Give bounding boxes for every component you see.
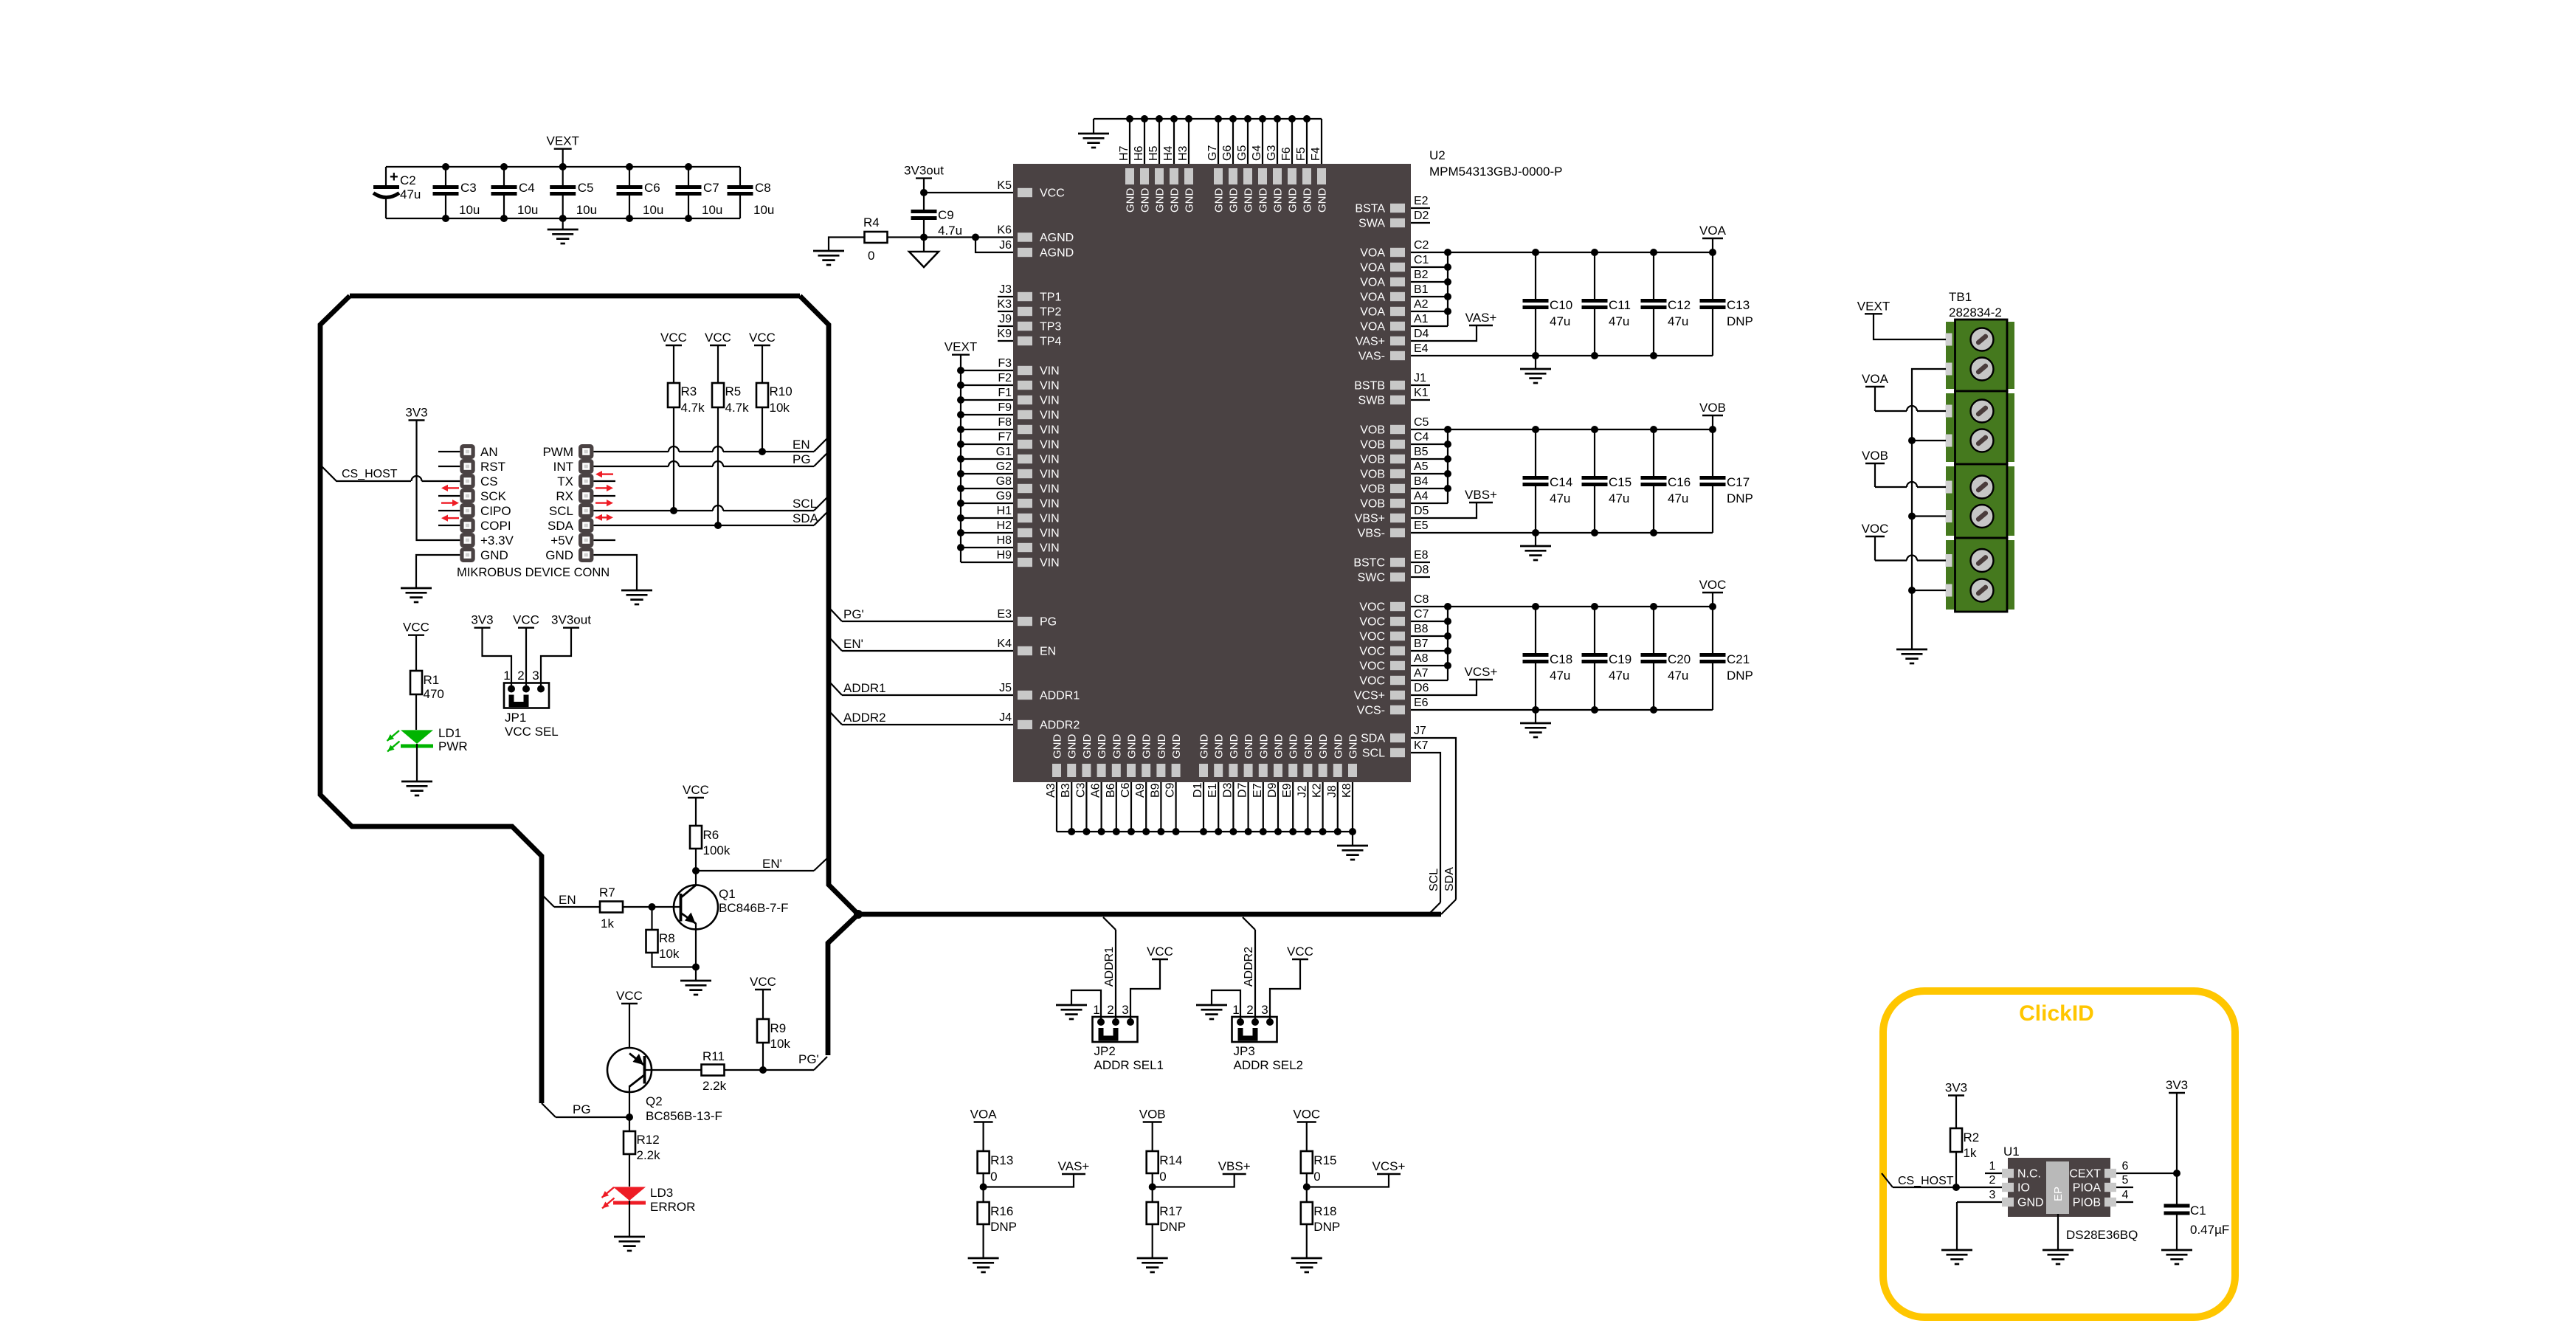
svg-text:R18: R18 (1313, 1204, 1336, 1218)
svg-text:GND: GND (1141, 734, 1153, 759)
svg-text:VCC: VCC (1147, 945, 1173, 959)
svg-text:GND: GND (1316, 188, 1329, 213)
svg-text:C6: C6 (644, 181, 660, 195)
U2 pin A7 VOC (1359, 667, 1448, 688)
label U1 (2003, 1145, 2020, 1159)
resistor R1 (410, 635, 444, 730)
svg-text:VCC: VCC (1287, 945, 1313, 959)
svg-text:CS_HOST: CS_HOST (342, 468, 398, 480)
net label VOA (bank) (1699, 224, 1727, 252)
U2 pin K2 GND (bottom) (1311, 734, 1330, 836)
capacitor C6 (617, 163, 664, 222)
U2 pin F3 VIN (957, 357, 1060, 378)
label VCC SEL (505, 725, 559, 739)
net label VOC (TB1) (1862, 522, 1889, 536)
resistor R14 (1147, 1122, 1183, 1187)
svg-text:CEXT: CEXT (2069, 1168, 2101, 1181)
svg-text:GND: GND (1287, 188, 1299, 213)
wire VCC to JP3 pin 3 (1270, 959, 1300, 1022)
U2 pin K8 GND (bottom) (1341, 734, 1360, 836)
svg-text:VIN: VIN (1040, 557, 1060, 570)
svg-text:C3: C3 (460, 181, 477, 195)
svg-text:+: + (390, 169, 398, 185)
svg-text:VEXT: VEXT (945, 340, 977, 354)
svg-text:1k: 1k (1964, 1146, 1977, 1160)
U2 pin C9 GND (bottom) (1164, 734, 1184, 836)
label TB1 (1949, 290, 1972, 304)
resistor R16 (978, 1187, 1017, 1259)
wire R4 to ground (829, 238, 865, 252)
svg-text:VIN: VIN (1040, 483, 1060, 496)
svg-text:47u: 47u (1668, 669, 1688, 683)
svg-text:G7: G7 (1206, 145, 1219, 161)
label ADDR SEL1 (1094, 1058, 1164, 1072)
svg-text:IO: IO (2017, 1182, 2030, 1195)
junction EN' node (692, 867, 700, 874)
ground (VOB bank) (1520, 533, 1551, 560)
svg-text:D5: D5 (1414, 505, 1429, 517)
wire Q2 base to R11 (644, 1069, 702, 1071)
U2 pin H4 GND (top) (1162, 115, 1181, 213)
svg-text:VOB: VOB (1360, 469, 1385, 481)
svg-text:G4: G4 (1251, 145, 1263, 161)
wire COPI stub (438, 525, 460, 526)
svg-text:C8: C8 (1414, 593, 1429, 606)
svg-text:A5: A5 (1414, 460, 1429, 473)
wire AN stub (438, 451, 460, 452)
U2 pin C6 GND (bottom) (1119, 734, 1139, 836)
svg-text:H3: H3 (1177, 145, 1189, 161)
wire VCC to Q2 emitter (629, 1004, 630, 1048)
wire top rail of input cap bank (386, 166, 740, 168)
svg-text:F3: F3 (998, 357, 1012, 370)
label PG' (798, 1052, 819, 1066)
svg-text:GND: GND (1213, 188, 1226, 213)
U2 pin J2 GND (bottom) (1296, 734, 1315, 836)
ground (Q1 emitter) (680, 967, 711, 995)
U2 pin H6 GND (top) (1133, 115, 1152, 213)
resistor R5 (712, 345, 749, 525)
junction VCS+ node (1303, 1184, 1311, 1191)
svg-text:BSTA: BSTA (1355, 203, 1385, 215)
svg-text:H1: H1 (997, 505, 1012, 517)
svg-text:F5: F5 (1295, 147, 1308, 161)
U2 pin F4 GND (top) (1310, 119, 1329, 213)
ground (right header) (621, 590, 652, 604)
svg-text:K1: K1 (1414, 387, 1429, 399)
svg-text:R9: R9 (770, 1021, 787, 1035)
U2 pin H3 GND (top) (1177, 115, 1196, 213)
svg-text:F2: F2 (998, 372, 1012, 384)
svg-text:PG: PG (793, 452, 811, 466)
svg-text:ADDR2: ADDR2 (1243, 947, 1255, 987)
svg-text:DS28E36BQ: DS28E36BQ (2066, 1228, 2138, 1242)
svg-text:PIOB: PIOB (2073, 1197, 2101, 1209)
svg-text:C5: C5 (578, 181, 594, 195)
red arrow (TX out) (595, 485, 613, 491)
wire R7 to Q1 base (623, 903, 681, 911)
resistor R10 (756, 345, 793, 452)
transistor Q1 BC846B-7-F (674, 871, 788, 967)
resistor R12 (624, 1117, 660, 1187)
svg-text:SCL: SCL (549, 504, 573, 518)
svg-text:VCC SEL: VCC SEL (505, 725, 559, 739)
svg-text:0: 0 (1159, 1170, 1166, 1184)
label SDA (793, 511, 819, 525)
U2 pin H8 VIN (957, 534, 1060, 555)
wire R4 to AGND pins (888, 234, 1014, 241)
svg-text:VOC: VOC (1699, 578, 1727, 592)
svg-text:E5: E5 (1414, 519, 1429, 532)
svg-text:VOA: VOA (970, 1108, 998, 1122)
svg-text:K7: K7 (1414, 739, 1429, 752)
svg-text:GND: GND (545, 548, 573, 562)
wire 3V3/CEXT node (2173, 1093, 2180, 1204)
wire U1 EP to ground (2057, 1214, 2059, 1250)
U1 pin 1 N.C. (1985, 1160, 2041, 1181)
svg-text:47u: 47u (1668, 491, 1688, 505)
capacitor C19 (1582, 603, 1632, 714)
svg-text:E3: E3 (997, 608, 1012, 621)
svg-text:Q1: Q1 (719, 887, 736, 901)
svg-text:A3: A3 (1045, 783, 1057, 798)
resistor R4 (863, 215, 888, 263)
svg-text:C11: C11 (1609, 298, 1631, 312)
svg-text:SCL: SCL (1428, 869, 1440, 891)
wire CS_HOST (ClickID) (1882, 1173, 2002, 1191)
red arrow (CS in) (441, 485, 459, 491)
U2 pin B1 VOA (1360, 283, 1448, 304)
wire SCL row to bus (593, 497, 827, 514)
svg-text:DNP: DNP (1159, 1220, 1186, 1234)
wire JP2 pin 1 to ground (1071, 990, 1101, 1022)
capacitor C7 (676, 163, 723, 222)
ground (U1 EP) (2043, 1250, 2073, 1264)
U2 pin H2 VIN (957, 519, 1060, 540)
svg-text:R7: R7 (599, 885, 615, 900)
svg-text:EN: EN (559, 893, 576, 907)
svg-text:VCC: VCC (660, 331, 687, 345)
svg-text:D4: D4 (1414, 328, 1429, 340)
ground (R18) (1291, 1258, 1322, 1272)
svg-text:GND: GND (1170, 734, 1183, 759)
U1 EP pad (2046, 1161, 2069, 1214)
ground (VOA bank) (1520, 356, 1551, 383)
junction Q1 emitter node (692, 964, 700, 971)
svg-text:GND: GND (1066, 734, 1079, 759)
svg-text:A1: A1 (1414, 313, 1429, 325)
capacitor C12 (1641, 249, 1691, 359)
svg-text:C5: C5 (1414, 416, 1429, 429)
svg-text:GND: GND (1243, 188, 1255, 213)
U2 pin J5 ADDR1 (829, 682, 1080, 702)
svg-text:H2: H2 (997, 519, 1012, 532)
svg-text:G5: G5 (1236, 145, 1249, 161)
U2 pin C1 VOA (1360, 254, 1448, 275)
svg-text:VCC: VCC (513, 613, 539, 627)
U2 pin E3 PG (829, 608, 1057, 629)
svg-text:C1: C1 (1414, 254, 1429, 266)
svg-text:10u: 10u (702, 203, 722, 217)
svg-text:DNP: DNP (1727, 669, 1753, 683)
ground (R16) (968, 1258, 999, 1272)
svg-text:VIN: VIN (1040, 542, 1060, 555)
svg-text:H4: H4 (1162, 145, 1175, 161)
pin number 1 (JP3) (1232, 1003, 1239, 1017)
U2 pin E4 VAS- (1358, 342, 1713, 363)
net label VOC (bank) (1699, 578, 1727, 607)
svg-text:C20: C20 (1668, 652, 1691, 666)
net label VEXT (TB1) (1857, 299, 1890, 314)
svg-text:G8: G8 (996, 475, 1012, 488)
svg-text:H8: H8 (997, 534, 1012, 547)
svg-text:4.7u: 4.7u (938, 224, 962, 238)
svg-text:A4: A4 (1414, 490, 1429, 503)
svg-text:4.7k: 4.7k (681, 401, 705, 415)
U2 pin G1 VIN (957, 446, 1060, 466)
svg-text:R4: R4 (863, 215, 880, 229)
resistor R7 (599, 885, 623, 931)
capacitor C2 (373, 167, 421, 218)
wire J6 AGND elbow (976, 238, 1013, 253)
svg-text:C7: C7 (703, 181, 719, 195)
wire JP3 pin 1 to ground (1212, 990, 1240, 1022)
ground (U2 bottom) (1337, 832, 1368, 860)
net label VEXT (VIN rail) (945, 340, 977, 355)
svg-text:R14: R14 (1159, 1153, 1182, 1167)
wire 3V3out to VCC pin node (920, 179, 928, 196)
svg-text:K9: K9 (997, 328, 1012, 340)
wire PG (INT row) to bus (593, 453, 827, 466)
svg-text:K2: K2 (1311, 783, 1324, 798)
pin number 2 (JP2) (1107, 1003, 1113, 1017)
svg-text:H9: H9 (997, 549, 1012, 562)
svg-text:VOA: VOA (1360, 291, 1385, 304)
svg-text:3V3: 3V3 (2166, 1078, 2188, 1092)
label DS28E36BQ (2066, 1228, 2138, 1242)
ClickID boundary box (1883, 991, 2235, 1317)
svg-text:VOA: VOA (1862, 372, 1889, 386)
svg-text:VOC: VOC (1293, 1108, 1320, 1122)
U2 pin A6 GND (bottom) (1090, 734, 1109, 836)
svg-text:GND: GND (1347, 734, 1360, 759)
svg-text:C14: C14 (1550, 475, 1572, 489)
svg-text:470: 470 (424, 687, 444, 701)
svg-text:E4: E4 (1414, 342, 1429, 355)
svg-text:VCC: VCC (1040, 187, 1065, 200)
svg-text:K4: K4 (997, 638, 1012, 650)
svg-text:GND: GND (1139, 188, 1152, 213)
junction VBS+ node (1149, 1184, 1156, 1191)
svg-text:B8: B8 (1414, 623, 1429, 635)
capacitor C3 (433, 163, 480, 222)
svg-text:EN: EN (1040, 646, 1056, 658)
svg-text:G3: G3 (1265, 145, 1278, 161)
label MIKROBUS DEVICE CONN (457, 566, 610, 579)
svg-text:VOB: VOB (1862, 449, 1888, 463)
svg-text:B1: B1 (1414, 283, 1429, 296)
svg-text:A2: A2 (1414, 298, 1429, 311)
svg-text:VOA: VOA (1360, 247, 1385, 260)
svg-text:GND: GND (1169, 188, 1181, 213)
net label VBS+ (1465, 488, 1497, 503)
svg-text:C3: C3 (1074, 782, 1087, 798)
svg-text:282834-2: 282834-2 (1949, 305, 2002, 320)
net label VCC (JP1) (513, 613, 539, 628)
svg-text:J9: J9 (999, 313, 1012, 325)
U2 pin J4 ADDR2 (829, 711, 1080, 732)
net label VAS+ (1058, 1159, 1090, 1174)
svg-text:10u: 10u (576, 203, 597, 217)
svg-text:BC856B-13-F: BC856B-13-F (646, 1109, 722, 1123)
svg-text:47u: 47u (1668, 314, 1688, 328)
resistor R9 (757, 990, 790, 1070)
svg-text:F8: F8 (998, 416, 1012, 429)
analog ground AGND symbol (C9) (909, 238, 939, 268)
wire VOA pin tie bus (1444, 249, 1451, 326)
pin number 1 (JP1) (503, 669, 510, 683)
svg-text:VAS+: VAS+ (1058, 1159, 1090, 1173)
svg-text:COPI: COPI (480, 519, 511, 533)
jumper JP2 (1093, 1017, 1138, 1042)
svg-text:C17: C17 (1727, 475, 1750, 489)
svg-text:C16: C16 (1668, 475, 1691, 489)
svg-text:J8: J8 (1326, 785, 1339, 798)
svg-text:E7: E7 (1251, 783, 1264, 798)
U2 pin F7 VIN (957, 431, 1060, 452)
capacitor C9 (911, 193, 963, 238)
label PG (573, 1102, 591, 1116)
IC U2 body (1013, 164, 1411, 782)
U2 pin E5 VBS- (1358, 519, 1713, 540)
label EN' (762, 857, 782, 871)
svg-text:SDA: SDA (793, 511, 819, 525)
svg-text:GND: GND (1302, 734, 1315, 759)
svg-text:+5V: +5V (550, 534, 573, 548)
net label VCC (JP2) (1147, 945, 1173, 959)
wire 3V3 to +3.3V pin (417, 421, 460, 541)
capacitor C4 (491, 163, 539, 222)
U2 pin A8 VOC (1359, 652, 1448, 673)
svg-text:ERROR: ERROR (650, 1200, 695, 1214)
svg-text:PG: PG (573, 1102, 591, 1116)
capacitor C17 (1700, 426, 1753, 533)
ground (R4) (813, 251, 844, 265)
U2 pin G3 GND (top) (1265, 115, 1285, 213)
svg-text:LD1: LD1 (438, 726, 461, 740)
svg-text:GND: GND (1213, 734, 1226, 759)
resistor R3 (668, 345, 705, 511)
wire VCC to JP1 pin 2 (525, 628, 527, 689)
svg-text:SCK: SCK (480, 489, 507, 503)
label JP1 (505, 711, 526, 725)
svg-text:BC846B-7-F: BC846B-7-F (719, 901, 788, 915)
U2 pin D8 SWC (1358, 564, 1430, 584)
pin number 1 (JP2) (1093, 1003, 1099, 1017)
svg-text:10u: 10u (643, 203, 663, 217)
net label 3V3out (JP1) (551, 613, 591, 628)
svg-text:VOA: VOA (1360, 306, 1385, 319)
svg-text:10k: 10k (770, 401, 790, 415)
svg-text:R8: R8 (659, 931, 675, 945)
svg-text:C21: C21 (1727, 652, 1750, 666)
wire 3V3out to JP1 pin 3 (541, 628, 571, 689)
svg-text:TP4: TP4 (1040, 336, 1061, 348)
connector TB1 282834-2 terminal block body (1946, 320, 2014, 612)
svg-text:INT: INT (553, 460, 573, 474)
pin number 3 (JP3) (1261, 1003, 1268, 1017)
svg-text:TX: TX (557, 474, 573, 488)
IC U1 body (2008, 1158, 2110, 1217)
svg-text:CS_HOST: CS_HOST (1898, 1175, 1954, 1187)
red arrow (INT in) (595, 471, 613, 477)
svg-text:VBS+: VBS+ (1218, 1159, 1251, 1173)
svg-text:VIN: VIN (1040, 498, 1060, 511)
U1 pin 3 GND (1957, 1189, 2044, 1209)
svg-text:GND: GND (1257, 188, 1270, 213)
svg-text:R13: R13 (990, 1153, 1013, 1167)
svg-text:E9: E9 (1281, 783, 1294, 798)
label ADDR2 (vertical) (1243, 947, 1255, 987)
capacitor C5 (550, 163, 597, 222)
svg-text:VOC: VOC (1359, 601, 1385, 614)
U2 pin G9 VIN (957, 490, 1060, 511)
svg-text:DNP: DNP (1313, 1220, 1340, 1234)
wire VOC to TB1-7 (1875, 536, 1946, 561)
resistor R6 (690, 798, 731, 871)
resistor R18 (1301, 1187, 1340, 1259)
svg-text:VOB: VOB (1139, 1108, 1166, 1122)
U2 pin C2 VOA (1360, 239, 1713, 260)
svg-text:GND: GND (1096, 734, 1108, 759)
svg-text:GND: GND (1111, 734, 1123, 759)
wire R11 to PG' bus (725, 1057, 828, 1074)
svg-text:R12: R12 (637, 1133, 660, 1147)
svg-text:U1: U1 (2003, 1145, 2020, 1159)
svg-text:R3: R3 (681, 384, 697, 398)
U2 pin J8 GND (bottom) (1326, 734, 1345, 836)
svg-text:VIN: VIN (1040, 424, 1060, 437)
svg-text:B6: B6 (1105, 783, 1117, 798)
svg-text:GND: GND (1154, 188, 1167, 213)
U2 pin A4 VOB (1360, 490, 1448, 511)
wire bottom GND bus of U2 (1057, 831, 1353, 832)
U2 pin H9 VIN (961, 549, 1060, 570)
U2 pin B6 GND (bottom) (1105, 734, 1124, 836)
svg-text:GND: GND (1302, 188, 1314, 213)
U2 pin C3 GND (bottom) (1074, 734, 1094, 836)
svg-text:SWC: SWC (1358, 572, 1385, 584)
svg-text:K5: K5 (997, 179, 1012, 192)
svg-text:VOC: VOC (1359, 616, 1385, 629)
svg-text:VIN: VIN (1040, 380, 1060, 393)
ground (JP3) (1196, 1005, 1227, 1019)
svg-text:VCS+: VCS+ (1465, 665, 1498, 679)
capacitor C13 (1700, 249, 1753, 356)
svg-text:10u: 10u (517, 203, 538, 217)
wire VOB to TB1-5 (1875, 463, 1946, 487)
svg-text:F4: F4 (1310, 147, 1322, 161)
svg-text:0: 0 (990, 1170, 997, 1184)
svg-text:N.C.: N.C. (2017, 1168, 2041, 1181)
jumper JP3 (1232, 1017, 1277, 1042)
U2 pin G4 GND (top) (1251, 115, 1270, 213)
svg-text:B2: B2 (1414, 269, 1429, 281)
U2 pin F6 GND (top) (1280, 115, 1299, 213)
label PG (793, 452, 811, 466)
svg-text:4.7k: 4.7k (725, 401, 750, 415)
svg-text:D9: D9 (1266, 782, 1279, 798)
